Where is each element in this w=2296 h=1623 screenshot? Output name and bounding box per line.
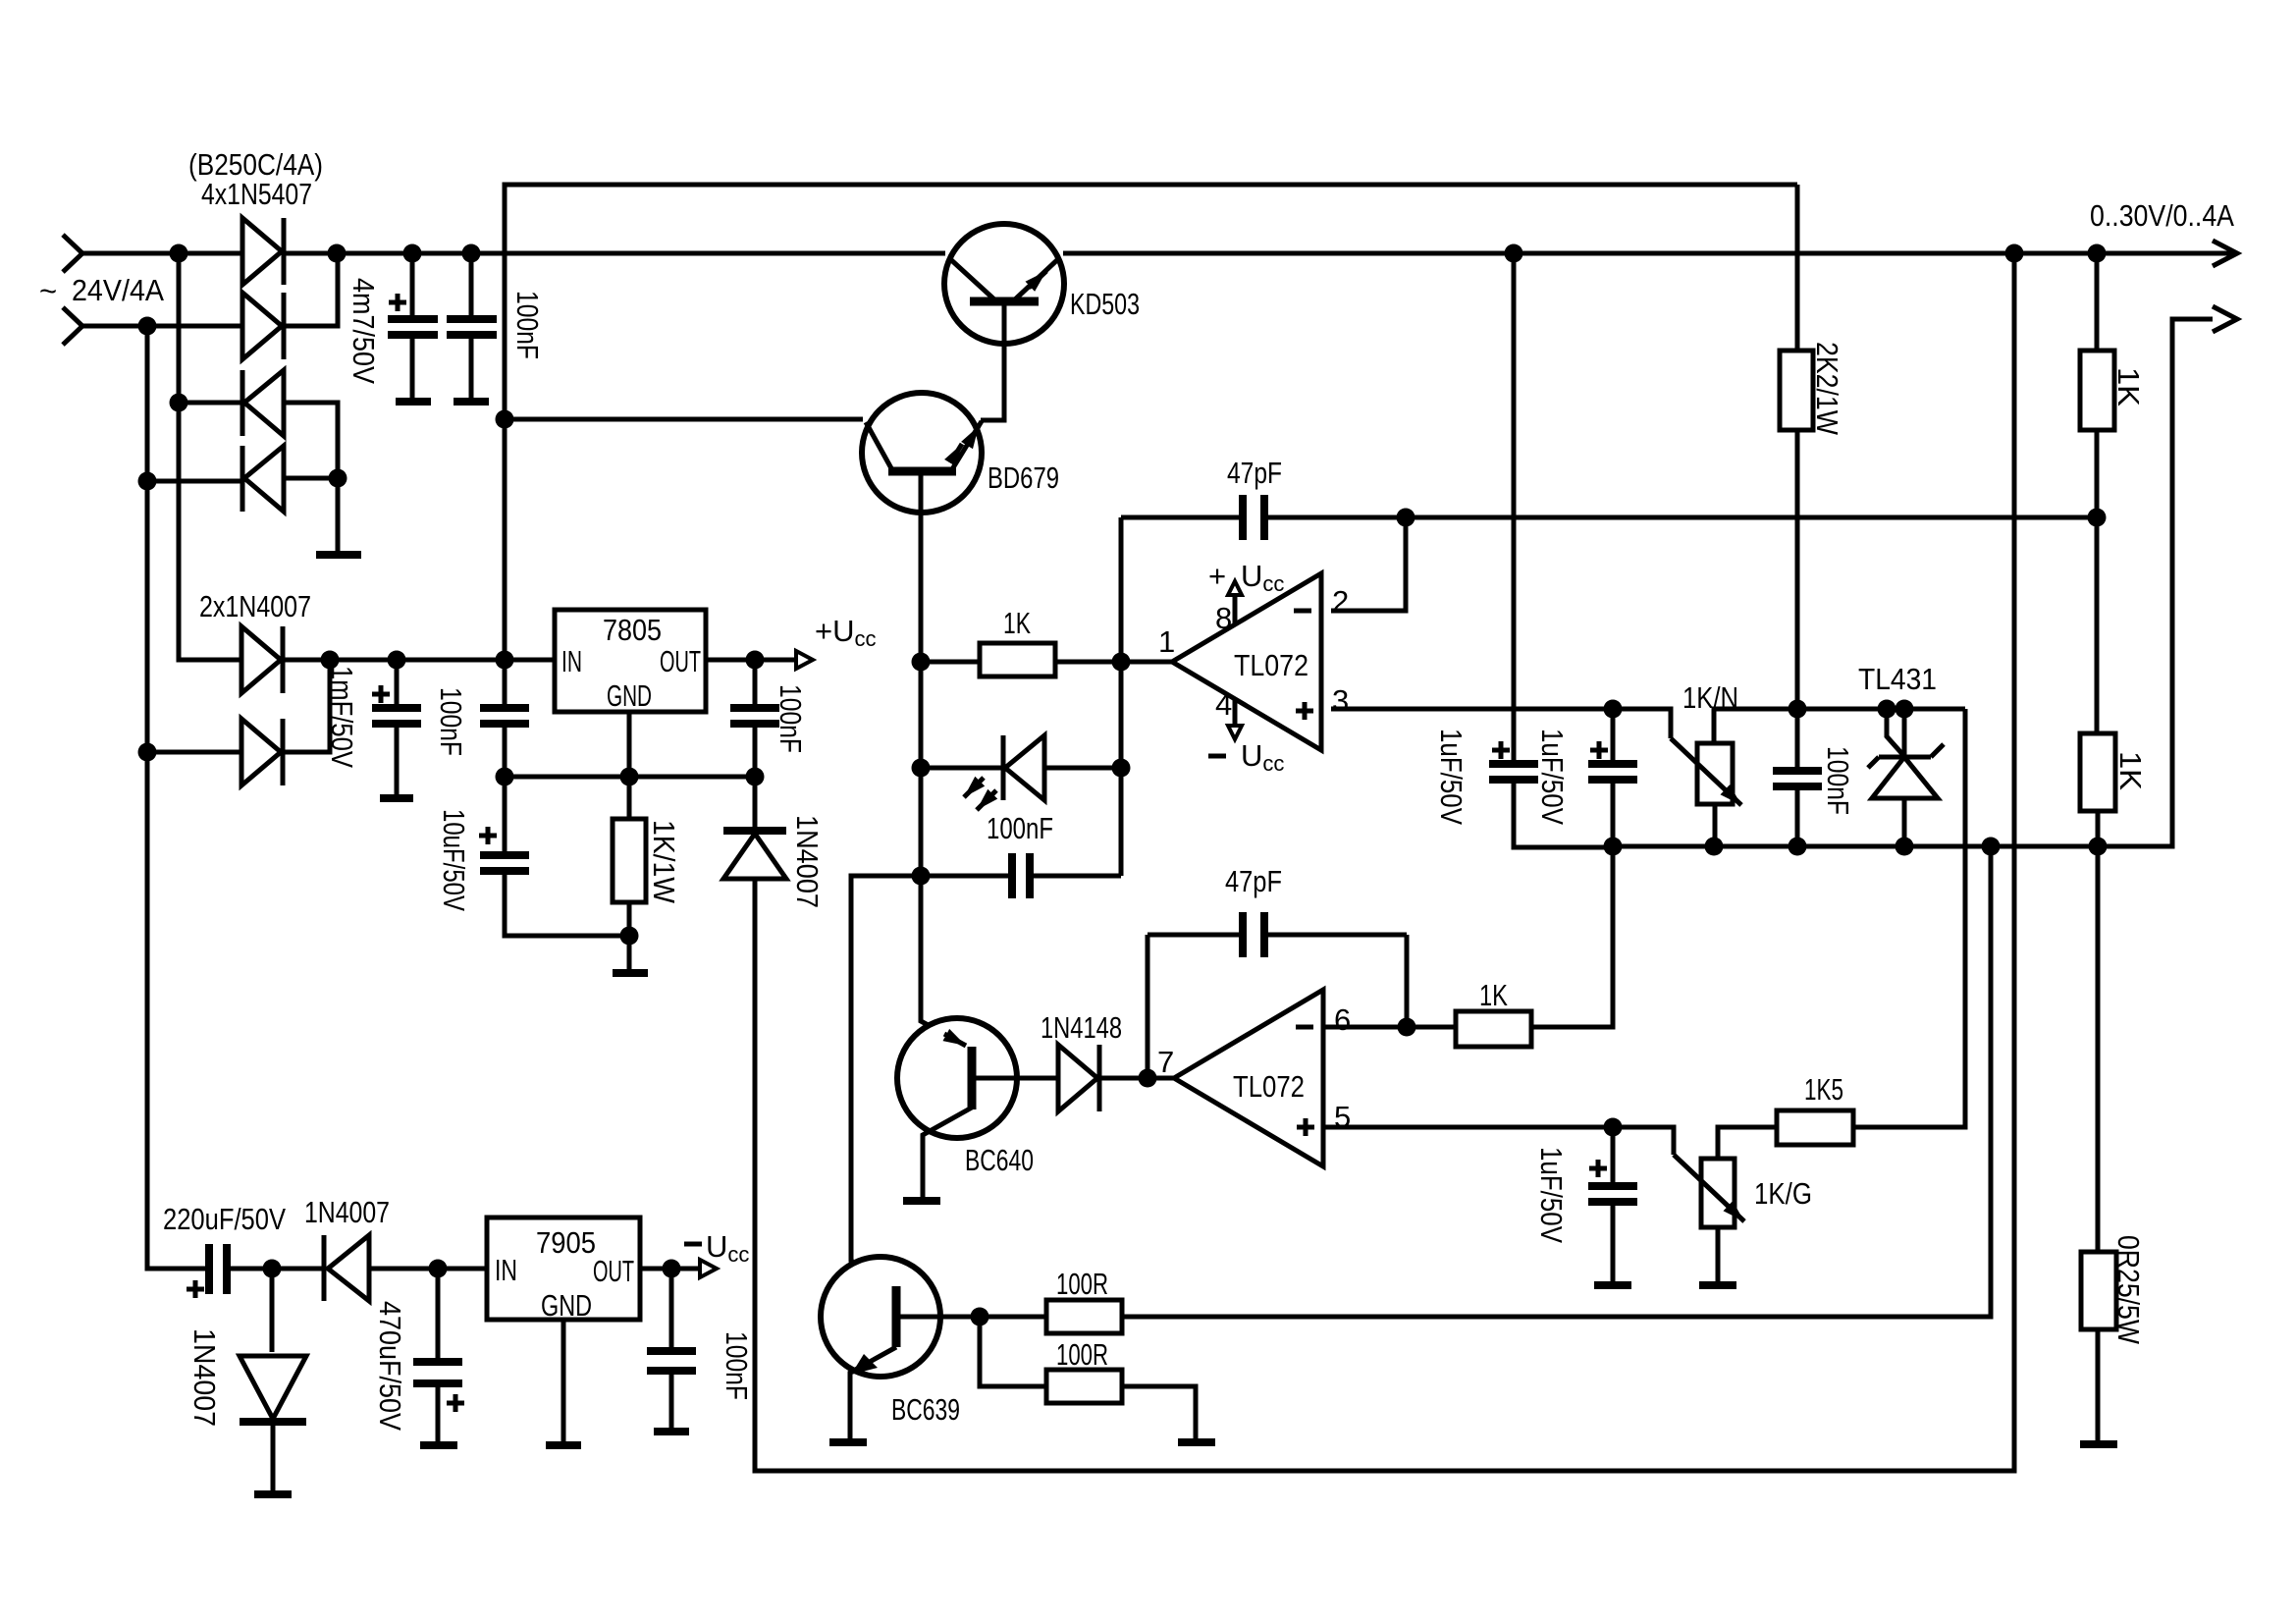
potentiometer 1K/N: [1697, 743, 1733, 804]
svg-text:24V/4A: 24V/4A: [72, 273, 164, 307]
svg-text:OUT: OUT: [593, 1254, 634, 1288]
svg-text:100R: 100R: [1056, 1267, 1108, 1301]
wire: vertical from rail B down to 2x1N4007 (x182): [179, 253, 241, 660]
wire: AC rail 2: [82, 324, 242, 329]
wire: 7905 GND to ground: [561, 1320, 566, 1442]
svg-text:4: 4: [1215, 687, 1232, 722]
capacitor 47pF (op-amp1 feedback): [1121, 515, 2097, 520]
svg-text:BC639: BC639: [891, 1392, 960, 1427]
resistor 1K (op-amp2 feedback): [1456, 1011, 1531, 1047]
capacitor 100nF (7805 out): [753, 660, 758, 777]
diode D6 (1N4007): [241, 719, 281, 785]
output arrow 0..30V/0..4A: [2213, 241, 2237, 266]
wire: 100R lower to ground: [1122, 1386, 1196, 1439]
wire: 47pF riser from pin1 node: [1119, 517, 1124, 662]
ground (7905): [546, 1441, 581, 1449]
wire: D3/D4 anodes join: [284, 403, 338, 552]
svg-text:1K/G: 1K/G: [1754, 1176, 1812, 1211]
transistor Q2 BD679: [862, 393, 982, 513]
resistor 1K (op-amp1 input): [921, 660, 1172, 665]
svg-text:8: 8: [1215, 601, 1232, 635]
wire: 220uF to 1N4007: [227, 1267, 324, 1271]
resistor 0R25/5W (shunt): [2096, 846, 2101, 1441]
svg-text:1uF/50V: 1uF/50V: [1534, 1147, 1569, 1243]
svg-text:100nF: 100nF: [720, 1331, 754, 1400]
svg-text:1K5: 1K5: [1804, 1072, 1843, 1107]
svg-text:47pF: 47pF: [1225, 864, 1282, 898]
wire: 7805 OUT to +Ucc: [706, 658, 796, 663]
wire: D3 cathode to x182: [179, 401, 244, 406]
transistor Q3 BC640: [897, 1018, 1017, 1138]
wire: BD679 collector from x514: [505, 417, 863, 422]
wire: raw+ rail right of KD503 to output arrow: [1063, 251, 2236, 256]
svg-text:1N4148: 1N4148: [1041, 1010, 1122, 1045]
wire: vertical x150 from AC2 down to 220uF corner: [147, 326, 209, 1269]
svg-text:1K: 1K: [1003, 606, 1031, 640]
pin 8 +Ucc arrow: [1233, 595, 1238, 625]
svg-text:1N4007: 1N4007: [304, 1195, 390, 1229]
capacitor 100nF (horizontal at y892): [921, 874, 1121, 879]
wire: 1K/N bottom lead to bus: [1713, 804, 1718, 846]
ground (1K/1W): [613, 969, 648, 977]
wire: divider lower to bus: [2096, 811, 2101, 846]
svg-text:7805: 7805: [603, 613, 662, 647]
wire: riser x1142 from pin1 to LED to 100nF: [1119, 662, 1124, 876]
capacitor 100nF (input): [469, 253, 474, 399]
svg-text:3: 3: [1332, 683, 1349, 718]
diode D4 (1N5407): [244, 446, 284, 512]
potentiometer 1K/G: [1701, 1159, 1735, 1227]
transistor Q4 BC639: [821, 1257, 940, 1377]
wire: 47pF2 risers: [1148, 935, 1407, 1078]
wire: D5/D6 outputs to 7805 IN: [283, 660, 555, 752]
svg-text:TL431: TL431: [1858, 662, 1937, 696]
regulator U4 7905: [487, 1217, 640, 1320]
svg-text:2K2/1W: 2K2/1W: [1810, 342, 1844, 436]
transistor Q1 KD503: [944, 224, 1064, 344]
capacitor 1uF/50V (pin5): [1611, 1127, 1616, 1282]
wire: KD503 base down to BD679 emitter: [981, 303, 1004, 420]
ground (0R25): [2080, 1440, 2117, 1448]
diode D1 (1N5407): [242, 218, 282, 285]
diode D3 (1N5407): [244, 370, 284, 436]
svg-text:47pF: 47pF: [1227, 456, 1282, 490]
svg-text:100R: 100R: [1056, 1337, 1108, 1372]
diode 1N4148: [1058, 1045, 1097, 1111]
wire: branch to 100R lower: [980, 1317, 1046, 1386]
wire: AC rail 1 left of bridge: [82, 251, 242, 256]
ground (470uF): [420, 1441, 457, 1449]
capacitor 1uF/50V (left): [1514, 253, 1613, 847]
minus sign (op1 inverting input): [1294, 609, 1311, 614]
wire: from 100nF node left and down to BC639 collector: [851, 876, 921, 1286]
svg-text:100nF: 100nF: [987, 811, 1053, 845]
svg-text:1N4007: 1N4007: [187, 1328, 222, 1427]
svg-text:1uF/50V: 1uF/50V: [1535, 729, 1570, 825]
svg-text:10uF/50V: 10uF/50V: [437, 809, 471, 911]
resistor 1K/1W: [627, 777, 632, 970]
capacitor 1mF/50V: [395, 660, 400, 795]
wire: 1K/N top lead and ref wire to TL431: [1714, 709, 1965, 743]
ground (BC639): [829, 1438, 867, 1446]
svg-text:1K: 1K: [1479, 978, 1508, 1012]
wire: GND bus under 7805: [505, 775, 755, 780]
svg-text:KD503: KD503: [1070, 287, 1140, 321]
input arrow 1 (AC line 1): [63, 235, 82, 272]
minus sign (op2): [1296, 1025, 1313, 1030]
wire: long bottom loop from 1N4007 anode to x2052 up to rail B: [755, 253, 2014, 1471]
svg-text:BC640: BC640: [965, 1143, 1034, 1177]
wire: pin3 wire to 1K/N wiper: [1331, 709, 1671, 738]
svg-text:2: 2: [1332, 584, 1349, 619]
diode 1N4007 (to ground, pointing down): [270, 1269, 275, 1352]
svg-text:TL072: TL072: [1233, 1069, 1305, 1104]
ground (1N4007): [254, 1490, 292, 1498]
capacitor 10uF/50V: [505, 777, 629, 936]
wire: BD679 base column down through LED/1K/100nF to BC640 emitter: [921, 473, 972, 1049]
svg-text:IN: IN: [561, 644, 582, 678]
wire: 7805 GND lead: [627, 712, 632, 777]
svg-text:4x1N5407: 4x1N5407: [201, 177, 312, 211]
label - Ucc: [1208, 754, 1226, 759]
resistor 100R (lower): [1046, 1370, 1122, 1403]
capacitor 220uF/50V: [209, 1244, 227, 1294]
capacitor 100nF (TL431): [1795, 709, 1800, 846]
resistor 100R (upper): [1046, 1300, 1122, 1333]
svg-text:1uF/50V: 1uF/50V: [1434, 729, 1468, 825]
svg-text:0R25/5W: 0R25/5W: [2111, 1235, 2146, 1345]
svg-text:+: +: [1208, 559, 1226, 593]
svg-text:1K/1W: 1K/1W: [647, 820, 681, 904]
ground (1K/G): [1699, 1281, 1736, 1289]
wire: D6 to x150 dot: [147, 750, 241, 755]
ground (BC640): [903, 1197, 940, 1205]
wire: bridge + join (D2 cathode up to rail B): [284, 253, 338, 326]
capacitor 100nF (-Ucc): [669, 1269, 674, 1429]
wire: 1K/G top lead to 1K5: [1718, 1127, 1777, 1159]
svg-text:7905: 7905: [536, 1225, 596, 1260]
wire: top line y188 with vertical x514: [505, 185, 1797, 660]
LED (optocoupler diode): [921, 766, 1121, 771]
svg-text:100nF: 100nF: [510, 291, 545, 359]
plus sign (op2): [1297, 1118, 1314, 1136]
resistor 1K (output divider upper): [2095, 253, 2100, 733]
wire: bus (0V) from caps to right edge arrow: [1613, 319, 2213, 846]
op-amp U1B TL072: [1174, 990, 1323, 1166]
shunt regulator TL431: [1887, 709, 1902, 754]
wire: 100R to x2028 riser to bus: [1122, 846, 1991, 1317]
svg-text:100nF: 100nF: [1821, 746, 1855, 815]
svg-text:100nF: 100nF: [774, 684, 808, 753]
diode 1N4007 (series, pointing left): [322, 1235, 327, 1301]
wire: 7905 OUT to -Ucc: [640, 1267, 700, 1271]
output arrow 2 (sense/0V): [2213, 306, 2237, 332]
wire: 1K to bus riser x1643: [1531, 846, 1613, 1027]
wire: 1K5 right up to ref wire: [1853, 709, 1965, 1127]
diode D5 (1N4007): [241, 626, 281, 693]
capacitor 470uF/50V: [436, 1269, 441, 1442]
wire: D4 cathode to x150: [147, 479, 244, 484]
svg-text:470uF/50V: 470uF/50V: [373, 1301, 407, 1431]
wire: 1K/G bottom lead to ground: [1716, 1227, 1721, 1282]
svg-text:220uF/50V: 220uF/50V: [163, 1202, 286, 1236]
capacitor 47pF (op-amp2 feedback): [1148, 933, 1407, 938]
svg-text:IN: IN: [495, 1253, 517, 1287]
svg-text:1mF/50V: 1mF/50V: [325, 666, 359, 768]
svg-text:2x1N4007: 2x1N4007: [199, 589, 311, 623]
wire: pin5 wire: [1323, 1127, 1674, 1155]
svg-text:~: ~: [39, 274, 57, 308]
diode 1N4007 (across regulator, pointing up): [753, 777, 758, 827]
svg-text:6: 6: [1334, 1002, 1351, 1037]
ground (100nF -Ucc): [654, 1428, 689, 1435]
plus sign (op1 non-inverting input): [1296, 702, 1313, 720]
label -Ucc: [684, 1242, 702, 1247]
svg-text:1K: 1K: [2111, 367, 2146, 406]
wire: 1N4148 to op-amp2 pin7: [1099, 1076, 1174, 1081]
wire: pin2 jog: [1331, 517, 1406, 611]
capacitor 100nF (7805 in): [503, 660, 507, 777]
resistor 2K2/1W: [1795, 185, 1800, 709]
capacitor 4m7/50V: [410, 253, 415, 399]
svg-text:0..30V/0..4A: 0..30V/0..4A: [2090, 198, 2234, 233]
svg-text:1N4007: 1N4007: [790, 815, 825, 908]
wire: BC640 base to 1N4148: [972, 1076, 1058, 1081]
svg-text:TL072: TL072: [1234, 648, 1308, 682]
svg-text:GND: GND: [541, 1288, 592, 1323]
resistor 1K (output divider lower): [2080, 733, 2115, 811]
ground (1uF pin5): [1594, 1281, 1631, 1289]
svg-text:7: 7: [1157, 1045, 1174, 1079]
input arrow 2 (AC line 2): [63, 307, 82, 345]
svg-text:GND: GND: [607, 678, 652, 713]
ground (100R lower): [1178, 1438, 1215, 1446]
-Ucc arrow: [700, 1260, 717, 1277]
svg-text:4m7/50V: 4m7/50V: [347, 278, 381, 384]
wire: raw+ rail (top rail B): [284, 251, 945, 256]
wire: diode to 7905 IN: [369, 1267, 487, 1271]
svg-text:BD679: BD679: [988, 460, 1059, 495]
svg-text:OUT: OUT: [660, 644, 701, 678]
ground bar (bridge minus): [316, 551, 361, 559]
capacitor 1uF/50V (right): [1611, 709, 1616, 846]
diode D2 (1N5407): [242, 293, 282, 359]
resistor 1K5: [1777, 1110, 1853, 1145]
svg-text:100nF: 100nF: [434, 687, 468, 756]
op-amp U1A TL072: [1172, 573, 1321, 750]
pin 4 -Ucc arrow: [1233, 698, 1238, 726]
wire: BC639 base to 100R junction: [896, 1315, 1046, 1320]
wire: pin6 to 1K: [1323, 1025, 1456, 1030]
+Ucc arrow: [796, 651, 813, 669]
regulator U3 7805: [555, 610, 706, 712]
svg-text:1: 1: [1158, 624, 1175, 659]
svg-text:1K: 1K: [2113, 751, 2148, 790]
